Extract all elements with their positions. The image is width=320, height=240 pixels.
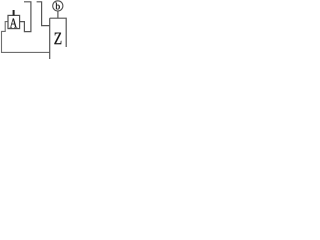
wire from box A right side: up-and-around loop — [20, 2, 31, 32]
svg-text:A: A — [10, 15, 18, 30]
terminal circle b stem — [57, 11, 59, 18]
wire top segment with vertical at x41 down to node — [37, 2, 50, 26]
wire vertical bus x49 — [49, 18, 51, 59]
terminal circle b — [53, 1, 63, 11]
box A — [8, 15, 20, 28]
svg-text:Z: Z — [54, 28, 62, 48]
wire node-b horizontal and right drop — [50, 18, 66, 47]
svg-text:b: b — [55, 2, 60, 12]
arrow stem above box A — [13, 10, 15, 15]
wire from box A left side down to bottom rail — [2, 22, 50, 53]
